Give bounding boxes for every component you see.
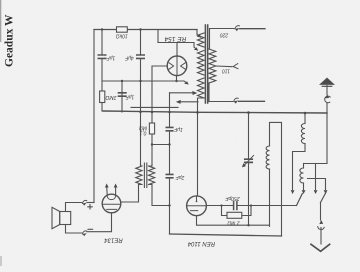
resistor R1 10kOhm (box inline top wire)	[117, 27, 128, 32]
loudspeaker LS	[52, 207, 60, 228]
wire: top HT wire	[94, 29, 197, 31]
svg-text:RE 154: RE 154	[164, 35, 186, 42]
wire: left rail V1 down to speaker plus	[93, 30, 95, 203]
antenna symbol	[320, 78, 333, 84]
svg-text:2μF: 2μF	[175, 174, 186, 180]
wire: interstage left winding bottom to RE134 grid	[121, 186, 139, 202]
U1 internals	[169, 56, 185, 75]
antenna coil L2 upper	[304, 113, 306, 124]
tube V3 REN1104 (detector)	[187, 196, 207, 216]
svg-text:4μF: 4μF	[124, 55, 134, 61]
switch S1 blade from grid wire pivot	[297, 194, 303, 206]
tuning coil L1 loops	[266, 146, 269, 169]
wire: earth lead with plug	[320, 203, 322, 221]
wire: V2 rail with C1 and R2	[101, 30, 103, 112]
wire: S2 left plug from coil top wire	[315, 164, 317, 190]
svg-text:1μF: 1μF	[125, 94, 135, 100]
wire: L2 bottom to switch S1 left plug	[293, 144, 306, 190]
wire: RE154 cathode lead to y81 wire	[176, 76, 178, 81]
variable capacitor arrow	[244, 155, 254, 165]
wire: REN1104 grid wire to grid condenser	[206, 205, 232, 207]
wire: long bottom bus to tank right edge	[170, 234, 282, 236]
bus B1 (short heater bus)	[131, 106, 178, 108]
minus sign speaker	[88, 228, 93, 230]
plus sign speaker	[88, 205, 92, 209]
antenna plug hook	[325, 96, 331, 103]
wire: T junction V5 to V6	[152, 144, 170, 146]
wire: speaker plus lead	[66, 203, 82, 212]
capacitor C1 1uF (horizontal plates)	[98, 55, 105, 58]
wire: mains bottom lead	[209, 83, 233, 102]
plug connector mains bottom	[234, 98, 239, 101]
plug arrow 110	[233, 64, 238, 69]
capacitor C3 1uF (horizontal plates)	[119, 93, 126, 96]
svg-text:Geadux W: Geadux W	[4, 14, 16, 67]
wire: L3 tap to S2 right plug	[308, 179, 326, 190]
wire: mains 220V lead	[210, 29, 235, 50]
wire: horizontal filament wire y81	[102, 80, 184, 82]
scan edge artifact top-left	[0, 0, 1, 42]
grid leak loop wires	[222, 206, 252, 216]
bus B2 (main horizontal bus)	[103, 111, 327, 113]
wire: L3 top horizontal to antenna lead	[304, 163, 328, 165]
RE154 label box edge	[158, 30, 177, 43]
plug connector speaker plus	[83, 200, 87, 203]
wire: T1 primary bottom lead down to REN1104 anode	[198, 98, 205, 196]
svg-text:2MΩ: 2MΩ	[105, 94, 117, 100]
tube V2 RE134 (output)	[102, 194, 121, 213]
wire: interstage right winding bottom to V6	[152, 186, 170, 206]
switch S2 blade on earth lead	[321, 193, 326, 203]
wire: REN1104 cathode to tank bottom	[197, 216, 270, 226]
T1 primary winding top section	[198, 33, 205, 47]
plug arrow S1 left	[291, 190, 295, 194]
RE134 filament pins with plug arrows	[107, 187, 116, 195]
svg-text:250pF: 250pF	[224, 195, 240, 201]
capacitor C5 1uF (on V6)	[166, 174, 173, 179]
variable capacitor C7 plates	[245, 159, 252, 163]
wire: V5 rail RE154 grid to interstage right winding	[152, 66, 167, 165]
T1 secondary winding (mains)	[209, 49, 216, 83]
svg-text:1μF: 1μF	[173, 126, 183, 132]
plug arrow V6 to anode line	[192, 91, 197, 95]
svg-text:110: 110	[222, 68, 230, 74]
resistor R2 2MOhm (vertical box)	[100, 91, 105, 103]
plug connector speaker minus	[83, 231, 87, 234]
grid capacitor C6 250pF (vertical plates)	[234, 202, 237, 210]
wire: V4 rail (4uF line) down to interstage winding	[140, 30, 142, 165]
interstage transformer T2 core	[144, 163, 146, 188]
svg-text:0,1: 0,1	[139, 130, 146, 136]
wire: V6 tap line with C4,C5 down to bottom bus	[170, 92, 193, 94]
capacitor C4 2uF (vertical plates on V6)	[166, 127, 173, 132]
antenna coil L3 lower	[303, 164, 305, 169]
capacitor C2 4uF (horizontal plates)	[137, 55, 144, 58]
U1 anode wire to PT tap	[177, 43, 194, 57]
svg-text:REN 1104: REN 1104	[187, 240, 215, 246]
svg-text:RE134: RE134	[104, 237, 123, 243]
wire: speaker minus lead	[66, 225, 82, 234]
tap arrow into PT left winding (from y81 wire)	[184, 81, 188, 84]
tube U1 RE154 (rectifier)	[167, 56, 187, 76]
T1 primary winding middle section	[198, 51, 205, 76]
wire: V3 rail with C3	[121, 81, 123, 112]
ground symbol	[311, 244, 330, 251]
wire: mains 110V tap	[216, 65, 232, 68]
svg-text:2 MΩ: 2 MΩ	[227, 220, 240, 226]
wire: RE134 cathode to speaker minus	[87, 213, 112, 232]
svg-text:1μF: 1μF	[106, 55, 116, 61]
svg-text:10kΩ: 10kΩ	[116, 33, 128, 39]
REN1104 internals	[187, 196, 206, 210]
variable capacitor C7 (tuning) line	[248, 113, 250, 226]
svg-text:220: 220	[220, 32, 230, 38]
wire: L3 bottom to switch S1 right plug	[303, 183, 305, 190]
plug stub from anode line	[180, 101, 198, 103]
T1 primary winding bottom section	[198, 78, 205, 98]
wire: top wire corner down to PT top tap	[196, 30, 198, 35]
antenna lead	[326, 86, 328, 164]
resistor R3 0.1MOhm (vertical box)	[149, 123, 154, 134]
power transformer T1 core	[205, 25, 207, 103]
plug connector 220	[235, 26, 240, 29]
interstage T2 left winding	[136, 165, 142, 187]
RE134 internals	[103, 195, 121, 210]
interstage T2 right winding	[149, 165, 155, 187]
resistor R4 2MOhm (horizontal box)	[227, 212, 242, 218]
tuning coil L1 frame (tall rectangle)	[270, 122, 282, 236]
